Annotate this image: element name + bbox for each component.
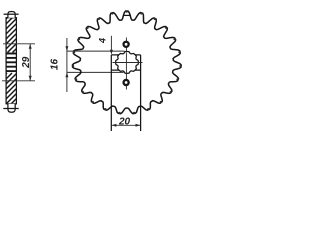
left view cross-section body hatching [0, 17, 53, 105]
top cap tooth [8, 12, 15, 18]
29 dim line [29, 44, 31, 81]
arrows [29, 44, 141, 127]
svg-text:4: 4 [98, 38, 108, 44]
29 extension lines [3, 43, 35, 45]
svg-text:20: 20 [118, 117, 131, 128]
left view spline bands [6, 54, 16, 72]
16 ext lines [67, 50, 125, 52]
svg-text:29: 29 [21, 56, 32, 69]
bottom tick [3, 108, 18, 110]
centerline crosshair [113, 62, 143, 64]
4 dim line [110, 36, 112, 50]
vertical centerline [125, 38, 127, 90]
16 dim line [66, 38, 68, 92]
20 dim line [111, 124, 140, 126]
tooth tip knobs [72, 10, 182, 114]
teeth outline [73, 11, 182, 114]
top tick [4, 13, 19, 15]
left view body outline [6, 18, 16, 104]
dimension texts [21, 38, 130, 128]
top tooth crossbar [123, 14, 130, 16]
spline bore [116, 52, 139, 74]
square around bore [111, 54, 140, 56]
svg-text:16: 16 [49, 59, 60, 71]
holes [124, 42, 129, 47]
bottom cap tooth [8, 104, 15, 112]
